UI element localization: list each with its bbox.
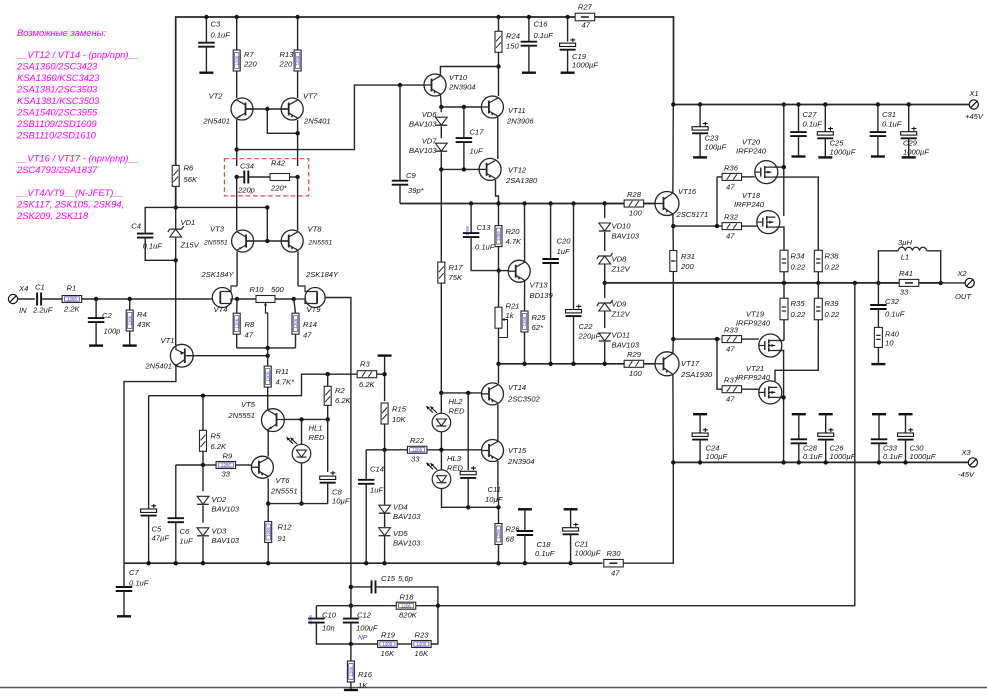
wire VT21 drain xyxy=(777,396,783,398)
wire rail2 to VT14 collector xyxy=(498,364,500,384)
capacitor C12 xyxy=(343,611,378,645)
junction C34 left xyxy=(235,175,239,179)
diode VD2 xyxy=(197,465,240,523)
wire VT2 collector down xyxy=(236,120,238,167)
svg-text:150: 150 xyxy=(506,42,519,51)
svg-text:0.1uF: 0.1uF xyxy=(129,579,149,588)
svg-text:1206: 1206 xyxy=(234,318,239,328)
junction -45 C24 xyxy=(698,460,702,464)
wire R36-R32 gate link xyxy=(717,176,722,178)
resistor R39 xyxy=(814,283,840,330)
wire gate vertical N xyxy=(717,177,722,226)
junction R5 top xyxy=(201,394,205,398)
junction VT1 collector node xyxy=(266,354,270,358)
svg-text:16K: 16K xyxy=(415,649,429,658)
junction out feedback xyxy=(853,281,857,285)
wire gate vertical P xyxy=(717,339,722,389)
svg-text:68: 68 xyxy=(506,535,515,544)
junction C15 tap xyxy=(349,585,353,589)
transistor VT12 xyxy=(479,158,538,185)
junction C2 xyxy=(94,297,98,301)
svg-text:R2: R2 xyxy=(335,386,345,395)
svg-text:OUT: OUT xyxy=(955,292,972,301)
junction rail1 C22 xyxy=(571,201,575,205)
ground C16 xyxy=(522,71,536,73)
svg-text:39p*: 39p* xyxy=(408,186,425,195)
svg-text:X2: X2 xyxy=(956,269,967,278)
junction R6 bottom xyxy=(174,205,178,209)
junction VT4 source xyxy=(235,297,239,301)
junction +45 C23 xyxy=(698,102,702,106)
capacitor C34 xyxy=(237,162,255,195)
svg-text:1206: 1206 xyxy=(349,666,354,676)
junction -45 C30 xyxy=(903,460,907,464)
svg-text:1uF: 1uF xyxy=(180,537,193,546)
svg-text:47: 47 xyxy=(726,183,735,192)
svg-text:C20: C20 xyxy=(557,237,572,246)
wire feedback vertical xyxy=(350,299,352,618)
junction R2 bottom xyxy=(326,417,330,421)
svg-text:R17: R17 xyxy=(449,263,464,272)
junction rail R12 xyxy=(266,561,270,565)
svg-text:10: 10 xyxy=(885,339,894,348)
resistor R38 xyxy=(814,250,840,283)
wire VT16 emitter xyxy=(672,214,674,251)
transistor VT10 xyxy=(424,73,476,96)
wire VT20 source xyxy=(773,177,818,250)
svg-text:47: 47 xyxy=(726,345,735,354)
svg-text:BAV103: BAV103 xyxy=(212,536,240,545)
wire VD1 to VT1 base xyxy=(175,260,177,345)
svg-text:R42: R42 xyxy=(271,159,286,168)
svg-text:L1: L1 xyxy=(901,253,909,262)
transistor VT14 xyxy=(482,383,541,405)
svg-text:VT3: VT3 xyxy=(210,225,225,234)
svg-text:6.2K: 6.2K xyxy=(211,442,228,451)
capacitor C27 xyxy=(790,105,822,157)
svg-text:2N3906: 2N3906 xyxy=(506,117,534,126)
svg-text:0.1uF: 0.1uF xyxy=(143,242,163,251)
capacitor C23 xyxy=(692,105,726,158)
wire VT3/VT8 base link xyxy=(246,240,289,242)
svg-text:0.1uF: 0.1uF xyxy=(882,120,902,129)
svg-text:2N5401: 2N5401 xyxy=(144,362,172,371)
capacitor C1 xyxy=(32,283,53,315)
capacitor C4 xyxy=(131,207,175,260)
svg-text:2SK117, 2SK105, 2SK94,: 2SK117, 2SK105, 2SK94, xyxy=(16,199,124,210)
svg-text:R6: R6 xyxy=(184,164,194,173)
svg-text:1206: 1206 xyxy=(67,297,77,302)
junction rail R26 xyxy=(496,561,500,565)
capacitor C5 xyxy=(141,396,170,564)
wire VT2 collector to VT10 base xyxy=(237,85,424,150)
svg-text:100: 100 xyxy=(629,209,642,218)
wire VT12 emitter xyxy=(496,180,499,204)
junction VT3/VT8 bases xyxy=(265,239,269,243)
ground C3 xyxy=(199,71,213,73)
svg-text:C17: C17 xyxy=(470,128,485,137)
junction rail C14 xyxy=(364,561,368,565)
wire VT9 gate line to feedback xyxy=(325,298,351,300)
svg-text:1uF: 1uF xyxy=(557,247,570,256)
svg-text:47: 47 xyxy=(303,331,312,340)
wire bias rail upper xyxy=(400,203,656,205)
wire VT13 collector xyxy=(524,204,526,262)
junction R5/R9/VD2 xyxy=(201,463,205,467)
svg-text:__VT16 / VT17 - (npn/pnp)__: __VT16 / VT17 - (npn/pnp)__ xyxy=(16,153,139,164)
svg-text:VD9: VD9 xyxy=(612,300,628,309)
wire VT18 drain stub xyxy=(775,216,784,218)
svg-text:1206: 1206 xyxy=(522,316,527,326)
junction rail C5 xyxy=(146,561,150,565)
svg-text:1206: 1206 xyxy=(417,642,427,647)
svg-text:1000µF: 1000µF xyxy=(572,61,598,70)
wire R17 line xyxy=(440,169,442,262)
wire VT2-VT7 bases xyxy=(246,108,289,110)
svg-text:R20: R20 xyxy=(506,227,521,236)
wire R22 to VT15 base xyxy=(427,449,482,451)
svg-text:R22: R22 xyxy=(410,436,425,445)
wire +45V rail xyxy=(673,104,969,106)
svg-text:X3: X3 xyxy=(960,448,971,457)
junction +45 drain xyxy=(782,102,786,106)
svg-text:VD2: VD2 xyxy=(212,495,228,504)
transistor VT1 xyxy=(144,336,193,371)
wire gnd to R3 node xyxy=(384,356,386,401)
svg-text:0.1uF: 0.1uF xyxy=(885,310,905,319)
svg-text:C15: C15 xyxy=(381,574,396,583)
svg-text:2SC3502: 2SC3502 xyxy=(507,395,540,404)
svg-text:VT21: VT21 xyxy=(746,364,764,373)
svg-text:VD5: VD5 xyxy=(393,529,409,538)
svg-text:HL2: HL2 xyxy=(449,397,464,406)
junction VT6 emitter node xyxy=(266,501,270,505)
svg-text:1206: 1206 xyxy=(293,318,298,328)
svg-text:1206: 1206 xyxy=(496,529,501,539)
capacitor C28 xyxy=(791,414,823,462)
resistor R36 xyxy=(722,164,755,192)
wire VT19 source xyxy=(777,335,784,341)
wire VT13 emitter xyxy=(524,281,526,312)
svg-text:IRFP9240: IRFP9240 xyxy=(736,319,771,328)
svg-text:C16: C16 xyxy=(534,20,549,29)
trimmer R10 xyxy=(250,285,285,348)
svg-text:2SA1380: 2SA1380 xyxy=(505,176,538,185)
junction top rail C19 xyxy=(565,15,569,19)
wire X4 to C1 xyxy=(18,298,35,300)
svg-text:IRFP240: IRFP240 xyxy=(736,147,767,156)
svg-text:C25: C25 xyxy=(830,139,845,148)
capacitor C18 xyxy=(517,509,555,563)
svg-text:1206: 1206 xyxy=(401,603,411,608)
svg-text:820K: 820K xyxy=(399,611,418,620)
svg-text:56K: 56K xyxy=(184,175,198,184)
capacitor C20 xyxy=(542,204,571,364)
svg-text:VT10: VT10 xyxy=(449,73,468,82)
svg-text:R9: R9 xyxy=(223,452,233,461)
jfet VT9 xyxy=(294,270,339,314)
wire VT7 emitter line xyxy=(297,120,299,166)
junction +45 C29 xyxy=(907,102,911,106)
svg-text:R16: R16 xyxy=(358,670,373,679)
svg-text:C31: C31 xyxy=(882,110,896,119)
svg-text:C13: C13 xyxy=(477,223,492,232)
svg-text:VT18: VT18 xyxy=(742,191,761,200)
svg-text:62*: 62* xyxy=(532,323,544,332)
resistor R16 xyxy=(347,644,372,690)
junction +45 VT16 xyxy=(671,102,675,106)
svg-text:R40: R40 xyxy=(885,330,900,339)
connector X1 xyxy=(965,89,984,121)
svg-text:C14: C14 xyxy=(370,465,384,474)
wire VT10 collector xyxy=(440,67,498,76)
junction C9 top xyxy=(398,83,402,87)
svg-text:-45V: -45V xyxy=(958,470,975,479)
junction R19 left xyxy=(349,642,353,646)
junction R8/R14 node xyxy=(266,346,270,350)
svg-text:47: 47 xyxy=(582,21,591,30)
wire VT14 base line xyxy=(441,392,481,394)
svg-text:1206: 1206 xyxy=(496,231,501,241)
svg-text:10n: 10n xyxy=(322,624,335,633)
wire VT19 source up xyxy=(777,340,784,342)
junction R18 right xyxy=(436,604,440,608)
capacitor C14 xyxy=(358,450,384,563)
svg-text:2N5551: 2N5551 xyxy=(270,487,298,496)
wire VT17 emitter xyxy=(672,339,674,353)
svg-text:2SK209, 2SK118: 2SK209, 2SK118 xyxy=(16,210,89,221)
resistor R17 xyxy=(438,262,463,393)
wire -45V rail xyxy=(673,461,968,463)
svg-text:VT14: VT14 xyxy=(508,383,526,392)
svg-text:VT16: VT16 xyxy=(678,187,697,196)
svg-text:1206: 1206 xyxy=(383,642,393,647)
svg-text:C34: C34 xyxy=(240,162,254,171)
svg-text:BAV103: BAV103 xyxy=(612,341,640,350)
wire VT1 emitter xyxy=(124,365,176,563)
junction rail2 VD11 xyxy=(603,362,607,366)
junction C17 top xyxy=(462,105,466,109)
wire x297.6 to VT8 xyxy=(297,177,299,231)
wire VT20 drain stub xyxy=(773,166,784,168)
svg-text:R31: R31 xyxy=(681,252,695,261)
svg-text:R11: R11 xyxy=(276,367,289,376)
junction HL2/HL3 tap xyxy=(439,448,443,452)
junction rail2 left xyxy=(496,362,500,366)
capacitor C17 xyxy=(456,107,485,169)
resistor R4 xyxy=(126,299,151,346)
resistor R23 xyxy=(397,606,438,658)
junction VT21 drain xyxy=(781,395,785,399)
junction VT7 line xyxy=(295,131,299,135)
wire C1 to R1 xyxy=(41,298,63,300)
junction rail1 C13 xyxy=(469,201,473,205)
junction rail C21 xyxy=(568,561,572,565)
svg-text:HL3: HL3 xyxy=(447,454,462,463)
svg-text:91: 91 xyxy=(278,534,286,543)
svg-text:47: 47 xyxy=(726,395,735,404)
svg-text:1K: 1K xyxy=(358,681,368,690)
svg-text:75K: 75K xyxy=(449,273,463,282)
svg-text:1206: 1206 xyxy=(265,371,270,381)
svg-text:1000µF: 1000µF xyxy=(830,452,856,461)
svg-text:Возможные замены:: Возможные замены: xyxy=(17,27,107,38)
svg-text:1000µF: 1000µF xyxy=(830,148,856,157)
svg-text:0.22: 0.22 xyxy=(825,310,841,319)
resistor R5 xyxy=(200,398,228,465)
capacitor C26 xyxy=(818,414,856,462)
wire C12 top seg xyxy=(350,606,352,619)
svg-text:+45V: +45V xyxy=(965,112,984,121)
capacitor C24 xyxy=(692,414,727,462)
svg-text:220: 220 xyxy=(279,60,293,69)
svg-text:1k: 1k xyxy=(506,311,515,320)
svg-text:2SC5171: 2SC5171 xyxy=(676,210,709,219)
svg-text:1000µF: 1000µF xyxy=(903,148,929,157)
junction R24/VT10 collector xyxy=(496,64,500,68)
trimmer R21 xyxy=(495,271,519,364)
resistor R1 xyxy=(62,284,82,314)
wire R22 node to C14 xyxy=(366,449,384,451)
wire VT18 source xyxy=(775,227,784,250)
svg-text:Z15V: Z15V xyxy=(180,241,200,250)
resistor R30 xyxy=(604,549,624,578)
svg-text:R38: R38 xyxy=(825,252,840,261)
svg-text:R25: R25 xyxy=(532,313,547,322)
wire R1 to VT4 gate xyxy=(82,298,213,300)
svg-text:10µF: 10µF xyxy=(332,497,350,506)
wire VT11 base line xyxy=(441,106,481,108)
transistor VT13 xyxy=(508,260,553,300)
svg-text:1uF: 1uF xyxy=(470,147,483,156)
svg-text:1000µF: 1000µF xyxy=(910,452,936,461)
transistor VT17 xyxy=(655,352,713,379)
svg-text:KSA1381/KSC3503: KSA1381/KSC3503 xyxy=(17,95,100,106)
junction rail1 C20 xyxy=(548,201,552,205)
wire VT5 emitter to VT6 collector xyxy=(267,431,268,457)
svg-text:BAV103: BAV103 xyxy=(212,505,240,514)
wire VT11-VT12 link xyxy=(497,118,499,160)
svg-text:1206: 1206 xyxy=(412,448,422,453)
transistor VT8 xyxy=(281,225,332,253)
connector X4 xyxy=(8,284,28,315)
wire +supply top rail xyxy=(176,17,674,207)
svg-text:BAV103: BAV103 xyxy=(393,512,421,521)
svg-text:VT17: VT17 xyxy=(681,359,700,368)
wire VT4 drain to VT3 emitter xyxy=(236,252,238,287)
mosfet VT21 xyxy=(736,364,782,404)
resistor R33 xyxy=(720,326,759,354)
svg-text:2.2uF: 2.2uF xyxy=(32,306,53,315)
transistor VT5 xyxy=(227,400,284,432)
junction out L1/C32 xyxy=(876,281,880,285)
svg-text:16K: 16K xyxy=(381,649,395,658)
wire x236.7 to VT3 xyxy=(236,177,238,231)
svg-text:R5: R5 xyxy=(211,432,221,441)
svg-text:2SK184Y: 2SK184Y xyxy=(201,270,235,279)
svg-text:R7: R7 xyxy=(244,50,254,59)
svg-text:BAV103: BAV103 xyxy=(612,232,640,241)
ground R4 xyxy=(123,344,137,346)
svg-text:C7: C7 xyxy=(129,568,139,577)
svg-text:VD6: VD6 xyxy=(422,110,438,119)
svg-text:2N3904: 2N3904 xyxy=(507,457,535,466)
svg-text:C4: C4 xyxy=(131,222,141,231)
svg-text:C1: C1 xyxy=(35,283,45,292)
capacitor C7 xyxy=(116,563,149,616)
diode VD3 xyxy=(197,527,240,564)
svg-text:VT4: VT4 xyxy=(214,305,228,314)
svg-text:__VT4/VT9__(N-JFET)__: __VT4/VT9__(N-JFET)__ xyxy=(16,187,124,198)
junction +45 C27 xyxy=(796,102,800,106)
svg-text:6.2K: 6.2K xyxy=(335,396,352,405)
svg-text:HL1: HL1 xyxy=(309,424,323,433)
capacitor C15 xyxy=(351,574,438,606)
svg-text:1000µF: 1000µF xyxy=(575,549,601,558)
svg-text:2SC4793/2SA1837: 2SC4793/2SA1837 xyxy=(16,164,98,175)
resistor R12 xyxy=(265,504,293,564)
junction R33 left xyxy=(715,337,719,341)
resistor R18 xyxy=(396,593,438,620)
svg-text:R15: R15 xyxy=(392,405,407,414)
bottom border line xyxy=(0,687,987,689)
svg-text:C11: C11 xyxy=(488,485,501,494)
wire R10 to VT9 source xyxy=(275,298,294,300)
capacitor C33 xyxy=(871,414,903,462)
junction rail C18 xyxy=(523,561,527,565)
svg-text:2SB1110/2SD1610: 2SB1110/2SD1610 xyxy=(16,130,97,141)
junction out R34 xyxy=(782,281,786,285)
wire gate line through VT4 xyxy=(213,298,220,300)
svg-text:C18: C18 xyxy=(537,540,552,549)
svg-text:100µF: 100µF xyxy=(706,452,728,461)
svg-text:R29: R29 xyxy=(627,350,642,359)
svg-text:VD1: VD1 xyxy=(181,218,196,227)
resistor R7 xyxy=(233,17,257,71)
svg-text:220: 220 xyxy=(243,60,257,69)
wire VT21 source xyxy=(775,330,818,381)
resistor R37 xyxy=(722,376,759,404)
ground R16 xyxy=(344,689,358,691)
wire C6 top link xyxy=(176,464,203,466)
svg-text:R30: R30 xyxy=(607,549,622,558)
svg-text:2N5401: 2N5401 xyxy=(202,117,230,126)
svg-text:R24: R24 xyxy=(506,32,520,41)
svg-text:IRFP240: IRFP240 xyxy=(734,200,765,209)
svg-text:1206: 1206 xyxy=(127,315,132,325)
resistor R2 xyxy=(324,374,351,419)
svg-text:R1: R1 xyxy=(67,284,77,293)
jfet VT4 xyxy=(201,270,238,314)
resistor R35 xyxy=(780,283,806,335)
junction VT20 drain xyxy=(782,165,786,169)
capacitor C6 xyxy=(168,465,193,563)
svg-text:C21: C21 xyxy=(575,540,589,549)
ground C2 xyxy=(89,344,103,346)
svg-text:R35: R35 xyxy=(791,299,806,308)
svg-text:BAV103: BAV103 xyxy=(393,539,421,548)
svg-text:47: 47 xyxy=(611,569,620,578)
junction R2 top xyxy=(326,372,330,376)
zener VD9 xyxy=(597,283,631,328)
svg-text:2SA1381/2SC3503: 2SA1381/2SC3503 xyxy=(16,84,98,95)
svg-text:RED: RED xyxy=(309,433,326,442)
svg-text:R32: R32 xyxy=(724,213,739,222)
svg-text:R34: R34 xyxy=(791,252,805,261)
wire bias rail lower xyxy=(499,363,657,365)
junction rail1 R20 xyxy=(496,201,500,205)
svg-text:VD10: VD10 xyxy=(612,222,632,231)
